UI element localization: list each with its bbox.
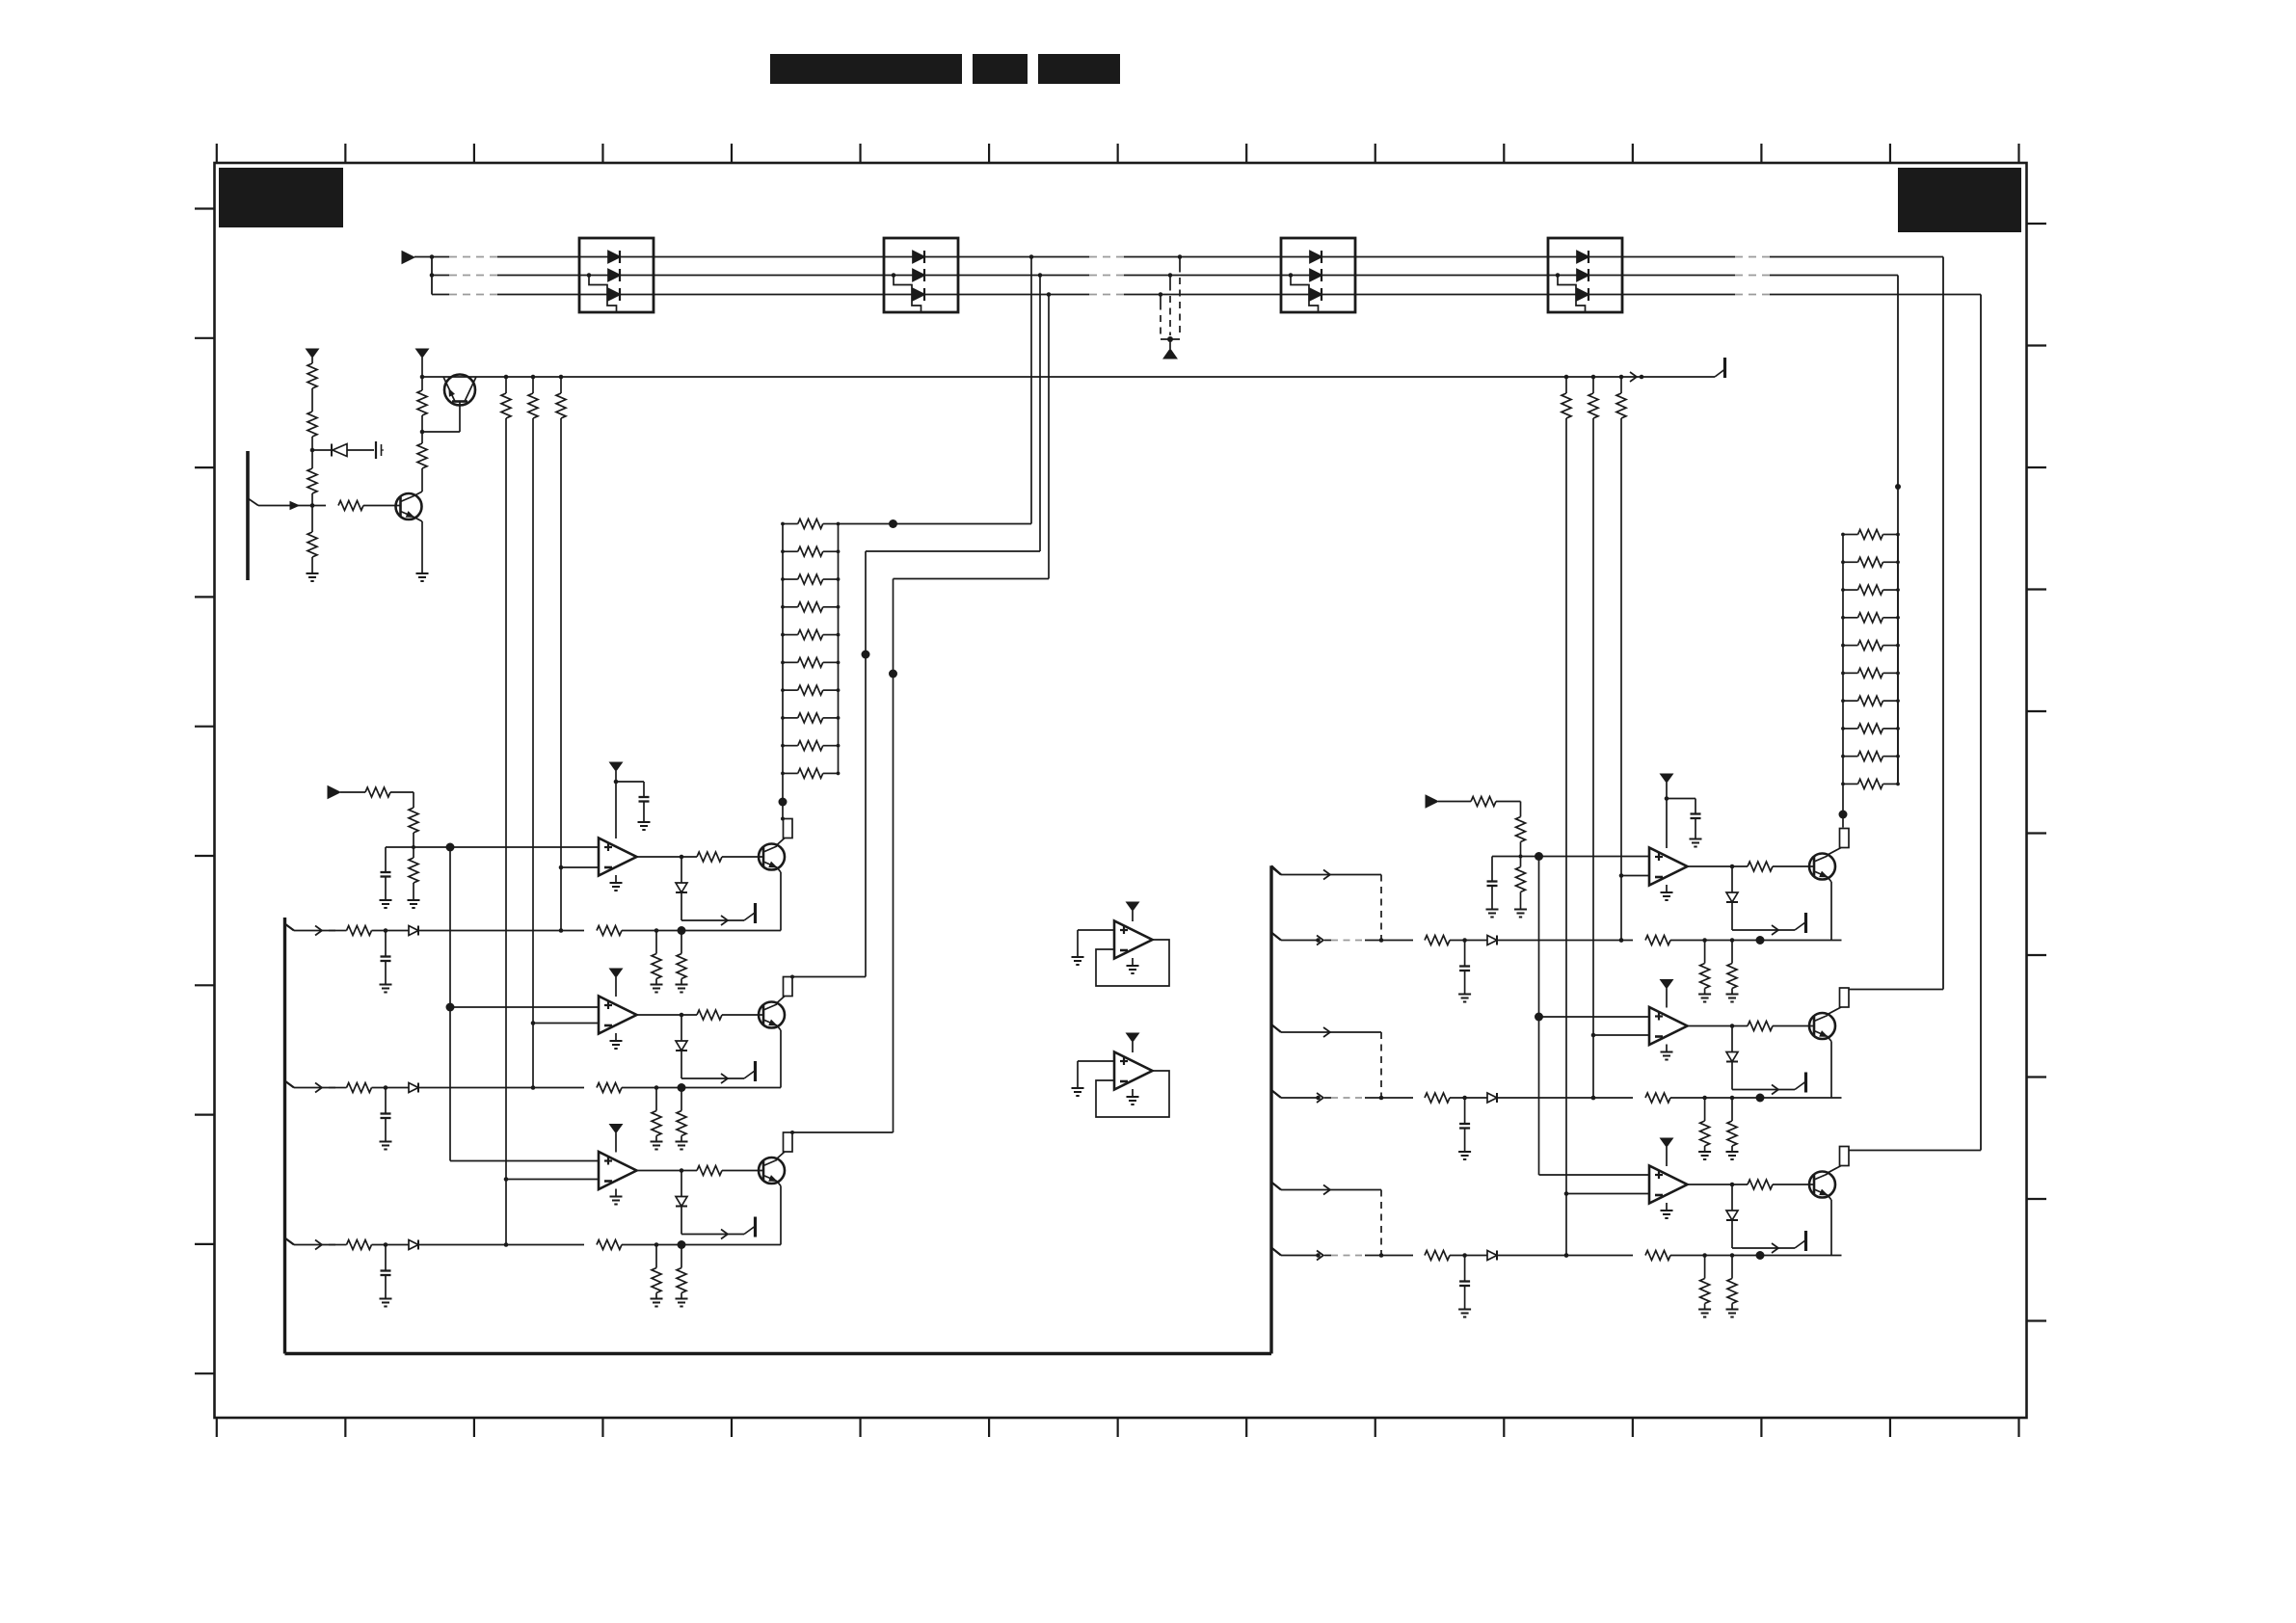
jumper flag R1: [1840, 829, 1850, 848]
wire: [1670, 1251, 1842, 1260]
connector stub (dashed drops): [1159, 254, 1183, 349]
power arrow V1: [307, 349, 319, 363]
resistor Rrow-gnd: [651, 1088, 663, 1150]
transistor QR2: [1809, 1013, 1835, 1039]
wire bus line3 drop to ch3 collector: [790, 292, 1051, 1134]
resistor RL1: [781, 519, 840, 529]
wire feedback row (from bus): [1271, 1248, 1381, 1261]
resistor Rrow-fb: [1645, 1093, 1670, 1103]
resistor RR7: [1841, 696, 1900, 705]
resistor Rrow-fb: [597, 1240, 622, 1250]
transistor QL2: [759, 1002, 785, 1028]
diode Drow: [409, 1240, 418, 1250]
wire: [1438, 801, 1471, 803]
wire left bus (thick): [283, 918, 286, 1354]
resistor RR2: [1841, 557, 1900, 567]
wire minus input: [561, 866, 599, 868]
wire: [722, 856, 763, 858]
ground UR1: [1661, 885, 1673, 900]
wire plus row R ch1: [1492, 852, 1649, 861]
diode Drow: [409, 1083, 418, 1093]
resistor RL2b (base): [697, 1010, 722, 1020]
wire Q2 emitter: [414, 518, 423, 574]
wire QL3 emitter: [777, 1182, 781, 1245]
resistor RL8: [781, 713, 840, 723]
capacitor CL1 (supply): [616, 782, 651, 830]
wire ch1 minus drop: [559, 418, 564, 933]
resistor RR10: [1841, 779, 1900, 788]
ground: [307, 573, 319, 581]
wire: [372, 928, 410, 933]
wire right ch3 minus drop: [1564, 418, 1569, 1258]
node input arrow L (+): [328, 786, 340, 799]
title block bar 2 (redacted): [973, 54, 1028, 84]
wire bottom bus (thick): [285, 1352, 1272, 1355]
wire UL3 output: [637, 1168, 698, 1173]
wire: [390, 792, 414, 808]
wire ch3 minus drop: [504, 418, 509, 1247]
diode Drow: [409, 926, 418, 936]
wire: [363, 505, 401, 507]
interconnect box X3: [1281, 238, 1355, 312]
test point TPR2: [1732, 1073, 1806, 1095]
wire: [622, 1083, 781, 1092]
wire feedback row (from bus): [1271, 933, 1381, 945]
capacitor Crow: [380, 1088, 392, 1150]
node input arrow R (+): [1426, 795, 1438, 808]
power arrow UL3: [610, 1125, 623, 1153]
resistor RL1b (base): [697, 852, 722, 862]
transistor QL3: [759, 1157, 785, 1184]
wire plus common drop R: [1535, 857, 1649, 1176]
wire feedback row (from bus): [285, 1081, 336, 1093]
wire bus line 2: [432, 275, 1898, 277]
wire UR3 output: [1688, 1183, 1749, 1187]
wire pre-row (from bus): [1271, 867, 1381, 880]
transistor QR3: [1809, 1172, 1835, 1198]
connector bar J1: [246, 451, 250, 580]
wire QR2 collector: [1827, 1007, 1841, 1015]
wire pre-row (from bus): [1271, 1183, 1381, 1195]
resistor RinL1: [365, 787, 390, 797]
wire UR2 output: [1688, 1024, 1749, 1028]
wire: [310, 493, 315, 532]
test point TPR1: [1732, 913, 1806, 935]
wire: [340, 791, 365, 793]
wire QL2 emitter: [777, 1025, 781, 1088]
resistor RinR3 (to gnd): [1514, 857, 1527, 918]
wire feedback row (from bus): [285, 1238, 336, 1250]
resistor Rrow-in: [335, 1083, 372, 1093]
wire QL1 emitter: [777, 867, 781, 931]
wire: [722, 1014, 763, 1016]
resistor RL10: [781, 768, 840, 778]
wire bus line1 right drop to right ch2 collector: [1849, 257, 1943, 990]
jumper flag L3: [784, 1132, 793, 1152]
wire: [1670, 1094, 1842, 1103]
wire: [312, 444, 374, 457]
wire pre-row (from bus): [1271, 1024, 1381, 1037]
interconnect box X1: [579, 238, 654, 312]
ground UR2: [1661, 1045, 1673, 1060]
op-amp UR3: [1649, 1166, 1688, 1204]
wire Q2 collector: [414, 468, 423, 496]
resistor Rrow-fb: [597, 1083, 622, 1093]
wire: [372, 1085, 410, 1090]
wire dashed drop: [1379, 1190, 1384, 1258]
zener DR2: [1726, 1026, 1738, 1090]
wire: [1773, 1025, 1814, 1027]
corner title box left (redacted): [219, 168, 343, 227]
wire bus line2 right drop to right ladder: [1895, 276, 1901, 783]
resistor RR9: [1841, 752, 1900, 761]
wire bus line 1: [414, 256, 1943, 258]
wire right ladder to ch1 collector: [1839, 784, 1848, 827]
wire: [311, 557, 313, 573]
wire ladder to ch1 collector: [779, 773, 788, 820]
resistor Rrow-gnd: [676, 1088, 688, 1150]
wire dashed drop: [1379, 875, 1384, 943]
resistor RL6: [781, 657, 840, 667]
power arrow U8: [1127, 1033, 1139, 1052]
transistor QL1: [759, 844, 785, 870]
resistor Rrow-gnd: [651, 931, 663, 993]
wire: [1496, 802, 1521, 817]
resistor Rrow-gnd: [676, 1245, 688, 1307]
wire: [311, 388, 313, 412]
resistor right divider x=1625: [1562, 377, 1571, 418]
op-amp UL3: [599, 1152, 637, 1189]
corner title box right (redacted): [1898, 168, 2021, 232]
resistor R5: [338, 501, 363, 511]
resistor RL3: [781, 574, 840, 584]
resistor R2: [307, 412, 317, 437]
resistor Rrow-gnd: [1698, 1256, 1711, 1317]
wire: [1450, 1253, 1487, 1258]
wire right ch1 minus drop: [1619, 418, 1624, 943]
wire QR3 collector: [1827, 1166, 1841, 1174]
jumper flag L2: [784, 977, 793, 997]
resistor RinL2: [409, 808, 418, 833]
interconnect box X4: [1548, 238, 1622, 312]
wire: [419, 1087, 584, 1089]
wire right ch2 minus drop: [1591, 418, 1596, 1100]
wire: [1773, 865, 1814, 867]
resistor RinR1: [1471, 797, 1496, 807]
wire: [310, 437, 315, 468]
wire: [419, 930, 584, 932]
capacitor CR1 (supply): [1667, 799, 1702, 847]
zener DR1: [1726, 866, 1738, 930]
resistor Rrow-gnd: [1726, 1256, 1739, 1317]
resistor RL9: [781, 741, 840, 751]
resistor RR3b (base): [1748, 1180, 1773, 1189]
wire minus input: [1593, 1034, 1649, 1036]
test point TP1: [1715, 358, 1725, 378]
wire QR2 emitter: [1828, 1037, 1831, 1099]
resistor RinR2: [1516, 817, 1526, 842]
wire: [419, 1244, 584, 1246]
ground U8 supply: [1127, 1089, 1139, 1104]
resistor Rrow-in: [1381, 1093, 1450, 1103]
test point TPL1: [681, 903, 756, 925]
transistor Q2: [396, 493, 422, 519]
resistor Rrow-gnd: [1726, 941, 1739, 1002]
ground UL1: [610, 875, 623, 891]
wire plus common drop L: [446, 847, 600, 1161]
wire minus input: [533, 1023, 599, 1024]
wire plus row L ch1: [386, 843, 599, 852]
resistor Rrow-fb: [597, 926, 622, 936]
wire bus left feeder: [430, 254, 435, 294]
wire QL2 collector: [776, 997, 785, 1004]
ground UR3: [1661, 1203, 1673, 1218]
jumper flag R3: [1840, 1147, 1850, 1166]
wire plus row R ch2: [1539, 1016, 1650, 1018]
capacitor C1 (to ground): [376, 441, 384, 459]
wire bus line2 drop to ch2 collector: [790, 273, 1042, 978]
capacitor Crow: [1458, 1256, 1471, 1317]
power arrow U7: [1127, 902, 1139, 921]
jumper flag R2: [1840, 988, 1850, 1007]
capacitor Crow: [380, 1245, 392, 1307]
op-amp U7 (spare): [1114, 921, 1153, 959]
resistor Rrow-gnd: [1726, 1098, 1739, 1159]
resistor Rrow-in: [335, 1240, 372, 1250]
resistor RR1b (base): [1748, 862, 1773, 871]
resistor R3: [307, 468, 317, 493]
resistor Rrow-in: [1381, 936, 1450, 945]
capacitor CinL: [380, 847, 392, 908]
resistor RR3: [1841, 585, 1900, 595]
resistor RinL3 (to gnd): [408, 847, 420, 908]
resistor RL7: [781, 685, 840, 695]
power arrow UL1: [610, 762, 623, 838]
transistor QR1: [1809, 854, 1835, 880]
resistor feedback divider x=525: [501, 377, 511, 418]
zener DL2: [676, 1015, 687, 1078]
wire feedback row (from bus): [1271, 1090, 1381, 1103]
resistor RR6: [1841, 668, 1900, 678]
wire: [1773, 1184, 1814, 1185]
resistor RR8: [1841, 724, 1900, 733]
resistor RL3b (base): [697, 1166, 722, 1176]
wire feedback row (from bus): [285, 924, 336, 936]
resistor R6: [417, 443, 427, 468]
op-amp U8 (spare): [1114, 1052, 1153, 1090]
resistor RL2: [781, 546, 840, 556]
capacitor Crow: [380, 931, 392, 993]
node bus input arrow: [402, 252, 414, 264]
zener DL1: [676, 857, 687, 920]
wire: [1450, 1096, 1487, 1101]
diode Drow: [1487, 1093, 1497, 1103]
op-amp UR2: [1649, 1007, 1688, 1045]
op-amp UL1: [599, 838, 637, 876]
wire: [1670, 936, 1842, 945]
title block bar 3 (redacted): [1038, 54, 1120, 84]
op-amp UR1: [1649, 848, 1688, 886]
wire U7 plus to ground: [1072, 930, 1115, 965]
ground UL2: [610, 1033, 623, 1049]
wire right bus (thick): [1271, 865, 1281, 1353]
resistor ladder RL rails: [783, 524, 839, 774]
capacitor CinR: [1486, 857, 1499, 918]
wire junction: [412, 833, 415, 849]
resistor chain R1: [307, 363, 317, 388]
wire input to Q2 base: [248, 498, 326, 510]
power arrow UR2: [1661, 980, 1673, 1008]
test point TPL2: [681, 1061, 756, 1083]
wire: [372, 1242, 410, 1247]
capacitor Crow: [1458, 941, 1471, 1002]
resistor RR5: [1841, 641, 1900, 651]
diode Drow: [1487, 936, 1497, 945]
resistor Rrow-gnd: [651, 1245, 663, 1307]
ground U7 supply: [1127, 958, 1139, 973]
resistor Rrow-in: [1381, 1251, 1450, 1261]
wire U8 plus to ground: [1072, 1061, 1115, 1096]
capacitor Crow: [1458, 1098, 1471, 1159]
wire minus input: [1621, 875, 1649, 877]
title block bar 1 (redacted): [770, 54, 962, 84]
op-amp UL2: [599, 997, 637, 1034]
resistor Rrow-fb: [1645, 936, 1670, 945]
zener DR3: [1726, 1184, 1738, 1248]
ground UL3: [610, 1189, 623, 1205]
wire: [622, 1240, 781, 1249]
zener DL3: [676, 1171, 687, 1235]
resistor Rrow-fb: [1645, 1251, 1670, 1261]
wire QR1 emitter: [1828, 877, 1831, 941]
resistor right divider x=1653: [1589, 377, 1598, 418]
wire U7 feedback loop: [1096, 940, 1169, 986]
resistor RR2b (base): [1748, 1022, 1773, 1031]
wire bus line1 drop to left ladder: [839, 254, 1034, 528]
wire QL1 collector: [776, 838, 785, 846]
wire bus line 3: [432, 294, 1981, 296]
resistor feedback divider x=553: [528, 377, 538, 418]
wire QL3 collector: [776, 1152, 785, 1159]
resistor Rrow-gnd: [1698, 1098, 1711, 1159]
wire: [722, 1170, 763, 1172]
resistor RR4: [1841, 613, 1900, 623]
ground: [416, 573, 429, 581]
wire UL2 output: [637, 1013, 698, 1018]
wire: [1450, 938, 1487, 943]
jumper flag L1: [784, 819, 793, 838]
resistor Rrow-in: [335, 926, 372, 936]
resistor Rrow-gnd: [1698, 941, 1711, 1002]
power arrow UR1: [1661, 774, 1673, 848]
power arrow V2: [416, 349, 429, 377]
wire main rail: [422, 372, 1715, 382]
resistor RL5: [781, 630, 840, 640]
wire minus input: [506, 1179, 599, 1181]
wire ch2 minus drop: [531, 418, 536, 1090]
wire junction: [1519, 842, 1523, 859]
wire minus input: [1566, 1193, 1649, 1195]
wire U8 feedback loop: [1096, 1071, 1169, 1117]
wire bus line3 right drop to right ch3 collector: [1849, 295, 1981, 1151]
wire plus row L ch2: [450, 1006, 599, 1008]
power arrow UL2: [610, 969, 623, 997]
resistor RR1: [1841, 530, 1900, 540]
resistor RL4: [781, 602, 840, 612]
power arrow UR3: [1661, 1138, 1673, 1166]
resistor right divider x=1682: [1616, 377, 1626, 418]
diode Drow: [1487, 1251, 1497, 1261]
wire dashed drop: [1379, 1032, 1384, 1100]
resistor R4: [307, 532, 317, 557]
resistor R7: [417, 390, 427, 415]
resistor Rrow-gnd: [676, 931, 688, 993]
node arrow up (off-page): [1163, 349, 1177, 359]
wire UL1 output: [637, 855, 698, 860]
test point TPR3: [1732, 1231, 1806, 1253]
resistor ladder RR rails: [1843, 535, 1898, 785]
wire: [420, 375, 425, 390]
test point TPL3: [681, 1217, 756, 1239]
resistor feedback divider x=582: [556, 377, 566, 418]
wire: [420, 415, 425, 443]
wire QR3 emitter: [1828, 1195, 1831, 1256]
wire: [1498, 1096, 1633, 1101]
interconnect box X2: [884, 238, 958, 312]
wire UR1 output: [1688, 865, 1749, 869]
wire: [622, 926, 781, 935]
transistor Q1: [422, 375, 476, 433]
wire: [1498, 1253, 1633, 1258]
wire QR1 collector: [1827, 848, 1841, 856]
wire: [1498, 938, 1633, 943]
